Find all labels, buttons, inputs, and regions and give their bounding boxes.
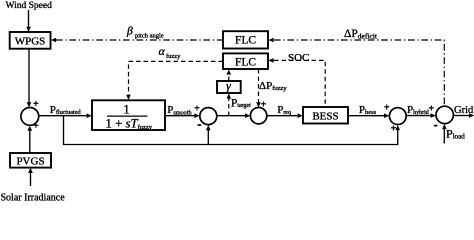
svg-text:WPGS: WPGS [15,36,46,48]
svg-text:1: 1 [123,102,130,117]
svg-text:pitch angle: pitch angle [135,33,164,40]
svg-text:fuzzy: fuzzy [166,53,181,60]
svg-text:+: + [261,100,267,111]
svg-text:FLC: FLC [235,35,256,47]
svg-text:+: + [33,99,39,110]
svg-text:α: α [159,44,166,58]
svg-text:Solar Irradiance: Solar Irradiance [1,193,66,202]
svg-text:FLC: FLC [235,56,256,68]
svg-text:SOC: SOC [288,52,309,64]
svg-text:+: + [384,103,390,114]
svg-text:+: + [429,104,435,115]
svg-text:Grid: Grid [454,105,474,116]
svg-text:+: + [33,121,39,132]
svg-text:+: + [391,123,397,134]
svg-text:β: β [126,26,133,38]
svg-text:Wind Speed: Wind Speed [6,1,53,11]
svg-text:PVGS: PVGS [16,156,44,168]
svg-text:γ: γ [226,78,231,92]
svg-text:BESS: BESS [312,111,338,123]
svg-text:+: + [194,104,200,115]
